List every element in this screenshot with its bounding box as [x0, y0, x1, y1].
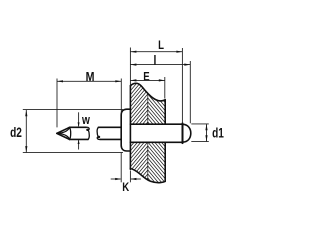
block right face upper: [164, 100, 166, 125]
extension line body left edge up (L,l,E left): [129, 48, 131, 86]
mandrel segment2 break curve: [97, 127, 100, 139]
arrow l right: [184, 64, 190, 66]
mandrel segment1 break curve: [86, 127, 89, 139]
rivet body tube top edge: [130, 123, 182, 125]
arrow E right: [159, 79, 165, 81]
dimension line d2: [25, 110, 27, 152]
dimension line E: [130, 79, 164, 81]
arrow l left: [130, 64, 136, 66]
rivet body tube bottom edge: [130, 141, 182, 143]
dimension line l: [130, 64, 190, 66]
block bottom break curve: [130, 169, 165, 183]
svg-text:w: w: [81, 113, 91, 127]
d1 extension bottom: [191, 141, 209, 143]
dimension line M: [57, 80, 121, 82]
extension line tube end up (L right): [181, 48, 183, 123]
dimension line K left segment: [111, 178, 121, 180]
dimension line K right segment: [131, 178, 141, 180]
arrow d1 top: [205, 124, 207, 130]
hatch centerline upper: [147, 90, 149, 124]
mandrel tip facet lines: [57, 128, 70, 139]
arrow L left: [130, 51, 136, 53]
block right face lower: [164, 142, 166, 181]
mandrel segment1 top edge: [70, 126, 87, 128]
mandrel segment2 bottom edge: [100, 138, 121, 140]
extension line flange left face (M right): [120, 79, 122, 113]
d1 extension top: [191, 123, 209, 125]
hatch upper block (herringbone): [130, 62, 165, 143]
arrow d2 bottom: [25, 146, 27, 152]
arrow w bottom (points up): [78, 140, 80, 144]
arrow w top (points down): [78, 122, 80, 126]
mandrel tip cone: [57, 127, 70, 139]
arrow d2 top: [25, 110, 27, 116]
K extension left: [120, 152, 122, 182]
svg-text:d2: d2: [10, 124, 22, 140]
hatch centerline lower: [147, 142, 149, 183]
mandrel head dome: [183, 124, 191, 142]
dimension line L: [130, 51, 182, 53]
extension line dome apex up (l right): [189, 61, 191, 123]
mandrel segment1 bottom edge: [70, 138, 89, 140]
dimension line w bottom segment: [78, 140, 80, 150]
svg-text:M: M: [86, 70, 95, 84]
d2 extension top: [23, 109, 123, 111]
arrow d1 bottom: [205, 135, 207, 141]
mandrel cone base arc: [70, 127, 71, 139]
arrow K left (points right): [115, 178, 121, 180]
arrow L right: [176, 51, 182, 53]
body left edge / flange right face: [129, 86, 131, 170]
svg-text:l: l: [154, 54, 157, 68]
extension line mandrel tip (M left): [56, 79, 58, 128]
rivet flange: [121, 109, 130, 151]
svg-text:L: L: [158, 39, 164, 52]
rivet body tube end face: [182, 123, 184, 143]
d2 extension bottom: [23, 152, 123, 154]
K extension right: [129, 171, 131, 183]
arrow E left: [130, 79, 136, 81]
hatch lower block (herringbone): [130, 122, 165, 203]
mandrel segment2 top edge: [98, 126, 121, 128]
svg-text:K: K: [122, 181, 129, 194]
block top break curve: [130, 83, 165, 101]
svg-text:d1: d1: [212, 125, 224, 141]
arrow M right: [115, 80, 121, 82]
svg-text:E: E: [143, 71, 149, 84]
arrow M left: [57, 80, 63, 82]
dimension line d1: [206, 124, 208, 141]
arrow K right (points left): [130, 178, 136, 180]
extension line block right face up (E right): [164, 77, 166, 99]
dimension line w top segment: [78, 112, 80, 126]
